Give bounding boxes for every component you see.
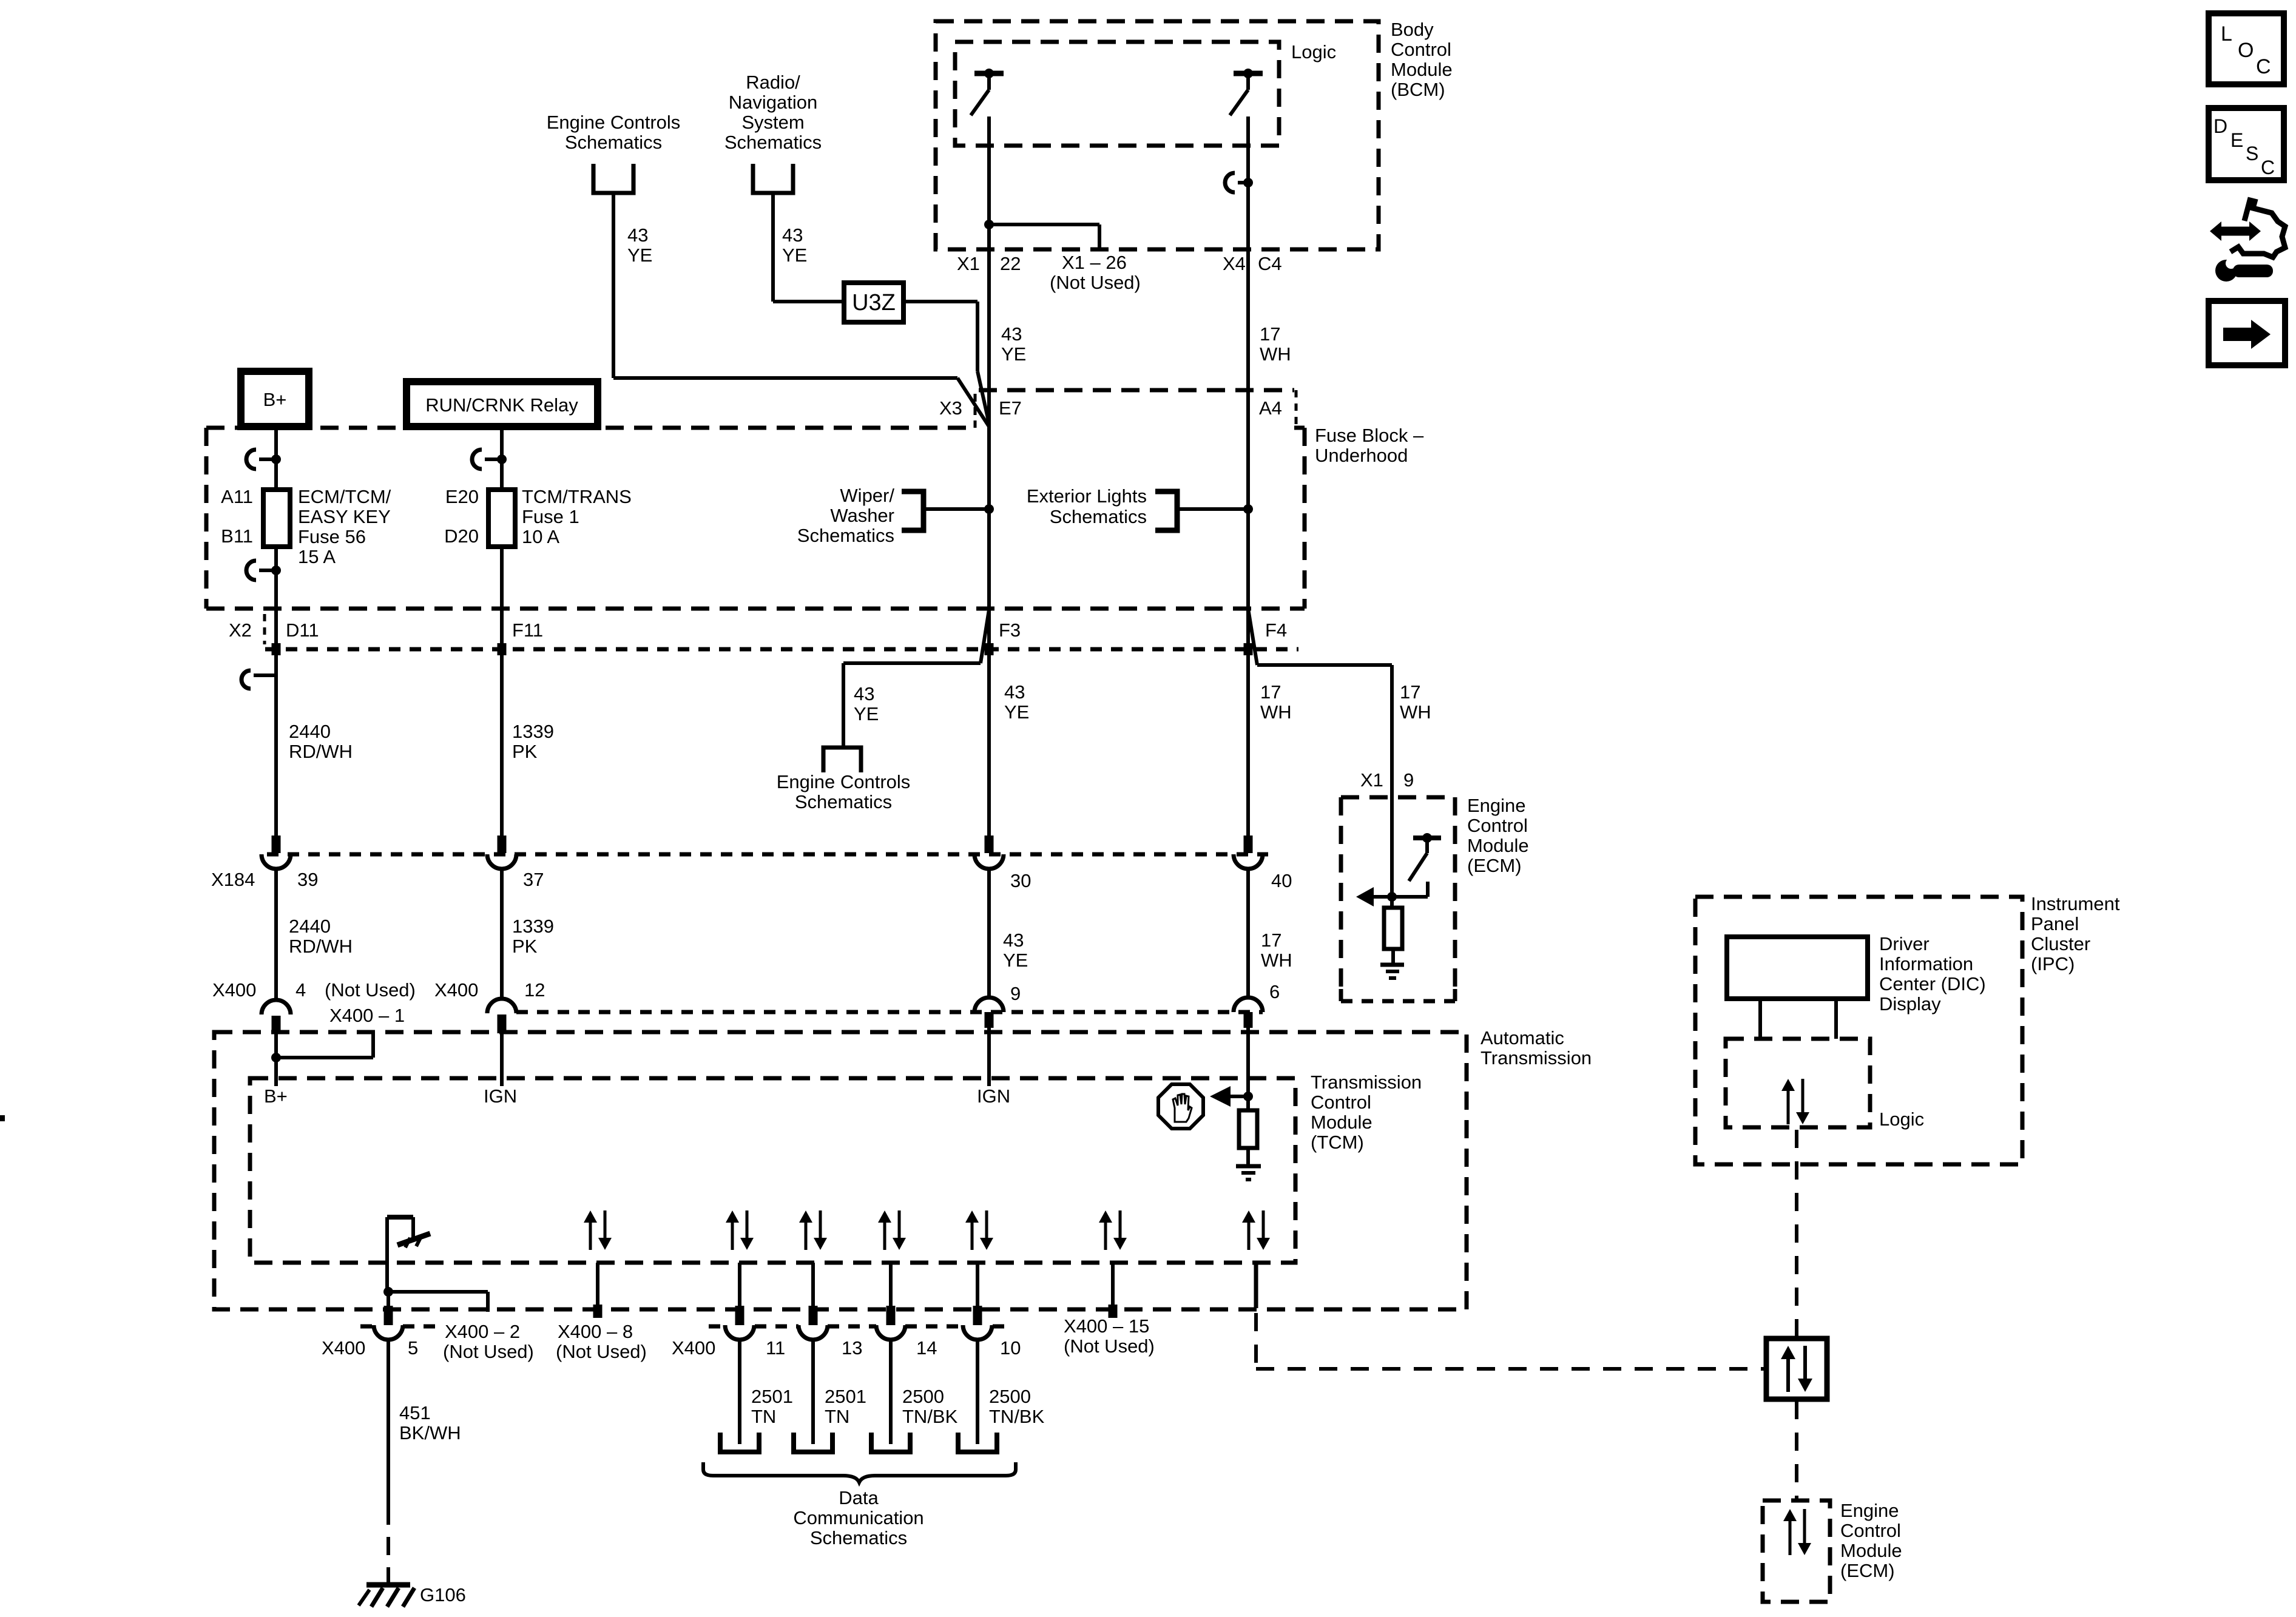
connector X400 pin 4 [262,1000,291,1014]
svg-text:RUN/CRNK Relay: RUN/CRNK Relay [425,394,578,416]
svg-text:17: 17 [1260,323,1280,345]
svg-text:Transmission: Transmission [1481,1047,1592,1068]
svg-text:Module: Module [1840,1540,1902,1561]
svg-text:Instrument: Instrument [2031,893,2120,914]
fuse block bottom connector row [265,647,1298,652]
svg-text:451: 451 [399,1402,431,1423]
connector separator at X2 [263,614,266,644]
wire B+ into fuse block [274,427,278,490]
wire stub X400-15 (Not Used) [1111,1263,1115,1308]
switch S1 in BCM logic (output driver, X1-22) [984,69,994,78]
dashed data line: IPC logic down [1795,1130,1798,1337]
wire 43 YE from Engine Controls bracket [612,193,615,378]
bottom X400 row segments [360,1325,375,1329]
svg-text:2440: 2440 [289,721,331,742]
svg-text:4: 4 [295,979,306,1001]
svg-text:U3Z: U3Z [852,290,896,316]
arrow pair: TCM serial data serial data right [1248,1220,1251,1250]
svg-text:Panel: Panel [2031,913,2079,934]
svg-text:E20: E20 [445,486,479,507]
svg-text:(Not Used): (Not Used) [1064,1335,1155,1357]
svg-text:(BCM): (BCM) [1391,79,1445,100]
node: junction 17 WH / ECM input [1387,892,1397,902]
comm node box (serial data) [1766,1338,1827,1399]
svg-text:Center (DIC): Center (DIC) [1879,973,1986,994]
svg-text:17: 17 [1260,681,1281,703]
svg-text:X400 – 1: X400 – 1 [329,1005,405,1026]
svg-text:YE: YE [627,245,652,266]
arrow: ECM input [1356,887,1374,906]
svg-text:Engine: Engine [1467,795,1526,816]
wire 17 WH: F4 to X184-40 [1246,609,1250,836]
wire stub X400-1 [371,1033,375,1058]
svg-text:30: 30 [1010,870,1031,891]
svg-text:17: 17 [1400,681,1420,703]
svg-text:E: E [2230,129,2243,151]
svg-text:BK/WH: BK/WH [399,1422,461,1443]
wire DIC leg right [1834,999,1838,1039]
svg-text:X400: X400 [322,1337,365,1359]
svg-text:D: D [2213,115,2227,137]
svg-text:X400 – 15: X400 – 15 [1064,1315,1149,1337]
svg-text:9: 9 [1403,769,1414,791]
wire stub X400-2 (Not Used) [388,1290,488,1294]
wire below fuse F1 [500,547,504,609]
svg-text:Display: Display [1879,993,1941,1014]
wire serial data 2501 TN through X400 pin 11 [738,1263,741,1306]
svg-text:2501: 2501 [751,1386,793,1407]
svg-text:Wiper/: Wiper/ [840,485,894,506]
node: junction ground wire / X400-2 stub [383,1287,393,1297]
node: junction 17 WH / exterior lights feed [1243,504,1253,514]
wire below fuse F56 [274,547,278,609]
svg-text:11: 11 [766,1337,785,1359]
wire 1339 PK: F11 to X184-37 [500,609,504,836]
module box: Automatic Transmission [214,1032,1467,1309]
connector clip above fuse F56 [246,450,256,469]
svg-text:System: System [741,112,804,133]
svg-text:Control: Control [1840,1520,1901,1541]
ground G106 (chassis) [366,1582,410,1588]
svg-text:(Not Used): (Not Used) [325,979,416,1001]
wire 17 WH through fuse block (A4 to F4) [1246,428,1250,609]
wire 451 BK/WH dashed to G106 [387,1507,390,1578]
wire 17 WH: BCM X4-C4 down to fuse block A4 [1246,249,1250,428]
svg-text:2500: 2500 [989,1386,1031,1407]
svg-text:22: 22 [1000,253,1021,274]
svg-text:E7: E7 [999,397,1022,419]
svg-text:Communication: Communication [793,1507,923,1528]
connector X400 pin 12 [487,999,516,1013]
wire B+ X400-4 into TCM [274,1033,278,1086]
svg-text:A11: A11 [221,486,253,507]
wire 43 YE into TCM IGN [987,1078,991,1086]
svg-text:43: 43 [1004,681,1025,703]
svg-text:WH: WH [1261,950,1292,971]
svg-text:39: 39 [297,869,318,890]
svg-text:6: 6 [1269,981,1280,1002]
svg-text:F11: F11 [512,619,543,641]
svg-text:RD/WH: RD/WH [289,741,353,762]
terminator for data wire pin 14 [871,1433,910,1452]
switch in ECM (input sense) [1422,833,1432,843]
resistor in ECM (pull-down) [1384,908,1402,949]
svg-text:G106: G106 [420,1584,466,1605]
connector clip below fuse F56 [246,561,256,580]
stray mark left margin [0,1115,5,1121]
ground in ECM [1380,963,1404,967]
connector X400 pin 5 [384,1306,393,1325]
svg-text:Schematics: Schematics [565,132,662,153]
svg-text:WH: WH [1260,701,1292,723]
terminator for data wire pin 13 [794,1433,832,1452]
module box: Engine Control Module (ECM) [1341,795,1455,800]
svg-text:X4: X4 [1223,253,1246,274]
svg-text:X3: X3 [939,397,962,419]
ground in TCM (signal ground) [1236,1164,1261,1169]
arrow pair: TCM serial data X400-15 [1104,1220,1107,1250]
icon: routing/repair glyph [2230,200,2285,257]
svg-text:Body: Body [1391,19,1434,40]
svg-text:IGN: IGN [977,1085,1010,1107]
arrow pair: ECM serial data [1789,1519,1792,1555]
node: junction 17 WH / TCM input [1243,1092,1253,1101]
connector separator at X3 [974,394,977,425]
wire 17 WH: X184-40 to X400-6 [1246,869,1250,996]
svg-text:X400 – 2: X400 – 2 [445,1321,520,1342]
svg-text:F4: F4 [1265,619,1287,641]
dashed data line: TCM to junction [1254,1263,1258,1308]
wire from U3Z to 43 YE wire [903,300,977,303]
svg-text:B+: B+ [263,389,287,410]
svg-text:43: 43 [1001,323,1022,345]
arrow pair: TCM serial data pin 11 [731,1220,734,1250]
resistor in TCM (pull-down) [1246,1096,1250,1110]
svg-text:Fuse 1: Fuse 1 [522,506,579,527]
svg-text:43: 43 [782,224,803,246]
wire 43 YE from S1 down to BCM bottom (X1 pin 22) [987,116,991,249]
svg-text:15 A: 15 A [298,546,336,567]
wire stub X400-8 (Not Used) [596,1263,599,1308]
svg-text:Cluster: Cluster [2031,933,2090,954]
svg-text:IGN: IGN [484,1085,517,1107]
svg-text:43: 43 [627,224,648,246]
dashed data line: comm node to ECM [1795,1401,1798,1499]
svg-text:(Not Used): (Not Used) [556,1341,647,1362]
svg-text:B11: B11 [221,525,253,547]
svg-text:Schematics: Schematics [810,1527,907,1548]
inline connector row X184 [267,852,1268,857]
arrow pair: comm node [1786,1357,1790,1392]
svg-text:Automatic: Automatic [1481,1027,1564,1048]
svg-text:Module: Module [1311,1112,1373,1133]
connector X184 pin 37 [498,836,507,853]
svg-text:10 A: 10 A [522,526,559,547]
wire IGN X400-12 into TCM [500,1033,504,1086]
wire serial data 2500 TN/BK through X400 pin 10 [976,1263,979,1306]
connector X184 pin 30 [985,836,994,853]
wire 2440 RD/WH: D11 to X184-39 [274,609,278,836]
svg-text:X400: X400 [434,979,478,1001]
svg-text:Schematics: Schematics [797,525,894,546]
wire RUN/CRNK into fuse block [500,427,504,490]
svg-text:Schematics: Schematics [724,132,822,153]
svg-text:X400 – 8: X400 – 8 [558,1321,633,1342]
svg-text:YE: YE [1001,343,1026,365]
svg-text:O: O [2238,39,2254,62]
svg-text:PK: PK [512,741,538,762]
wire 43 YE: X184-30 to X400-9 [987,869,991,996]
power feed box RUN/CRNK Relay [407,382,598,427]
svg-text:C4: C4 [1258,253,1282,274]
svg-text:Logic: Logic [1291,41,1336,62]
svg-text:TN/BK: TN/BK [902,1406,958,1427]
svg-text:YE: YE [782,245,807,266]
svg-text:C: C [2256,55,2271,78]
svg-text:X1: X1 [1360,769,1383,791]
node: junction 43 YE / wiper feed [984,504,994,514]
svg-text:2501: 2501 [825,1386,866,1407]
terminator for data wire pin 11 [720,1433,759,1452]
terminator for data wire pin 10 [958,1433,997,1452]
inline connector row X400 (pins 12,9,6) [516,1010,1263,1014]
svg-text:5: 5 [408,1337,418,1359]
svg-text:PK: PK [512,936,538,957]
module box: Transmission Control Module (TCM) [250,1078,1295,1263]
svg-text:TN: TN [751,1406,776,1427]
icon: stop-hand (TCM input) [1158,1084,1203,1129]
svg-text:TCM/TRANS: TCM/TRANS [522,486,632,507]
svg-text:D20: D20 [444,525,479,547]
svg-text:Module: Module [1391,59,1453,80]
module box: Body Control Module (BCM) [936,21,1379,249]
wire branch to Engine Controls Schematics (mid) [981,610,989,663]
svg-text:X1 – 26: X1 – 26 [1062,252,1127,273]
svg-text:Data: Data [839,1487,879,1508]
svg-text:Control: Control [1311,1092,1371,1113]
svg-text:Exterior Lights: Exterior Lights [1027,485,1147,507]
arrow: TCM input from 17 WH [1210,1086,1231,1107]
svg-text:(TCM): (TCM) [1311,1132,1364,1153]
svg-text:2500: 2500 [902,1386,944,1407]
svg-text:YE: YE [854,703,879,724]
svg-text:B+: B+ [264,1085,288,1107]
svg-text:X400: X400 [672,1337,715,1359]
BCM Logic box [955,42,1279,146]
wire: engine controls feed diagonal to node E7 [957,378,989,427]
svg-text:(Not Used): (Not Used) [1050,272,1141,293]
module box: Instrument Panel Cluster (IPC) [1695,897,2022,1164]
chassis ground symbol in TCM [385,1217,389,1292]
off-page dest: Engine Controls Schematics (mid) [823,748,861,772]
svg-text:YE: YE [1003,950,1028,971]
svg-text:Schematics: Schematics [1050,506,1147,527]
svg-text:Information: Information [1879,953,1973,974]
svg-text:(Not Used): (Not Used) [443,1341,534,1362]
arrow pair: TCM serial data pin 13 [805,1220,808,1250]
wire DIC leg left [1758,999,1762,1039]
wire 43 YE: BCM X1-22 down to fuse block E7 [987,249,991,428]
icon box DESC [2209,108,2284,180]
svg-text:TN: TN [825,1406,849,1427]
connector X400 pin 9 [974,998,1004,1012]
svg-text:Engine: Engine [1840,1500,1899,1521]
icon box arrow [2209,301,2285,365]
brace: data communication group [703,1462,1016,1482]
svg-text:Washer: Washer [830,505,894,526]
wire branch 17 WH to ECM [1248,609,1257,665]
svg-text:S: S [2246,143,2258,164]
svg-text:WH: WH [1400,701,1431,723]
fuse F1 (TCM/TRANS 10A) [488,490,515,547]
icon box LOC [2209,13,2284,84]
svg-text:9: 9 [1010,983,1021,1004]
svg-text:Control: Control [1467,815,1528,836]
arrow pair: TCM serial data X400-8 [589,1220,592,1250]
module box: Fuse Block - Underhood [206,426,971,430]
node: junction on 43 YE wire for X1-26 stub [984,220,994,229]
switch S2 in BCM logic (output driver, X4-C4) [1243,69,1253,78]
svg-text:1339: 1339 [512,721,554,742]
svg-text:X184: X184 [211,869,255,890]
svg-text:Underhood: Underhood [1315,445,1408,466]
arrow pair: IPC logic serial data [1787,1089,1790,1124]
wire 2440 RD/WH: X184-39 to X400-4 [274,869,278,999]
svg-text:1339: 1339 [512,916,554,937]
svg-text:Radio/: Radio/ [746,72,800,93]
svg-text:TN/BK: TN/BK [989,1406,1045,1427]
svg-text:14: 14 [916,1337,937,1359]
fuse F56 (ECM/TCM/EASY KEY 15A) [263,490,290,547]
svg-text:Control: Control [1391,39,1451,60]
svg-text:Engine Controls: Engine Controls [547,112,681,133]
svg-text:X1: X1 [957,253,980,274]
svg-text:(IPC): (IPC) [2031,953,2075,974]
svg-text:Fuse 56: Fuse 56 [298,526,366,547]
wire 1339 PK: X184-37 to X400-12 [500,869,504,999]
svg-text:Navigation: Navigation [729,92,817,113]
svg-text:D11: D11 [286,619,319,641]
wire 43 YE from Radio/Nav bracket to U3Z [771,193,775,302]
svg-text:43: 43 [1003,930,1024,951]
connector clip above fuse F1 [472,450,482,469]
wire 43 YE through fuse block (E7 to F3) [987,428,991,609]
svg-text:C: C [2261,157,2275,178]
svg-text:(ECM): (ECM) [1467,855,1522,876]
connector clip on 17 WH wire inside BCM [1225,173,1235,192]
svg-text:EASY KEY: EASY KEY [298,506,391,527]
svg-text:YE: YE [1004,701,1029,723]
arrow pair: TCM serial data pin 10 [971,1220,974,1250]
svg-text:X2: X2 [229,619,252,641]
wire serial data 2500 TN/BK through X400 pin 14 [889,1263,893,1306]
module box: Engine Control Module (ECM) bottom [1763,1501,1830,1602]
svg-text:RD/WH: RD/WH [289,936,353,957]
svg-text:Module: Module [1467,835,1529,856]
arrow pair: TCM serial data pin 14 [883,1220,886,1250]
svg-text:40: 40 [1271,870,1292,891]
svg-text:L: L [2221,22,2232,46]
svg-text:17: 17 [1261,930,1281,951]
svg-text:WH: WH [1260,343,1291,365]
svg-text:Transmission: Transmission [1311,1072,1422,1093]
svg-text:10: 10 [1000,1337,1021,1359]
connector X400 pin 6 [1234,998,1263,1012]
wire 17 WH from S2 down to BCM bottom (X4 pin C4) [1246,116,1250,249]
svg-text:X400: X400 [212,979,256,1001]
svg-text:Engine Controls: Engine Controls [777,771,911,792]
connector X184 pin 39 [272,836,281,853]
wire serial data 2501 TN through X400 pin 13 [811,1263,815,1306]
svg-text:2440: 2440 [289,916,331,937]
wire 43 YE: F3 to X184-30 [987,609,991,836]
svg-text:F3: F3 [999,619,1021,641]
svg-text:37: 37 [523,869,544,890]
display: Driver Information Center (DIC) [1727,937,1868,999]
power feed box B+ [241,371,309,427]
svg-text:ECM/TCM/: ECM/TCM/ [298,486,391,507]
IPC Logic box [1726,1039,1870,1127]
wire stub X1-26 (Not Used) [989,223,1099,226]
svg-text:43: 43 [854,683,874,704]
svg-text:Logic: Logic [1879,1109,1924,1130]
svg-text:Fuse Block –: Fuse Block – [1315,425,1424,446]
svg-text:12: 12 [524,979,545,1001]
wire 17 WH into ECM [1390,797,1394,908]
wire 451 BK/WH down from TCM ground [387,1292,390,1306]
dashed data line: junction to comm node [1256,1367,1764,1371]
connector clip X2 [241,670,251,689]
svg-text:Schematics: Schematics [795,791,892,812]
node: junction B+ / X400-1 [271,1053,281,1062]
svg-text:Driver: Driver [1879,933,1930,954]
option box U3Z [844,283,903,322]
svg-text:13: 13 [842,1337,862,1359]
svg-text:A4: A4 [1259,397,1282,419]
svg-text:(ECM): (ECM) [1840,1560,1895,1581]
connector X184 pin 40 [1244,836,1253,853]
